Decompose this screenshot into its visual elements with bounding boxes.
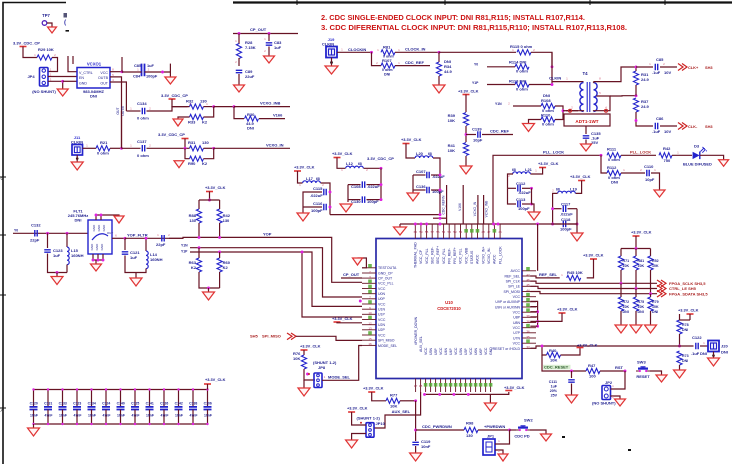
svg-text:AUX_SEL: AUX_SEL bbox=[392, 409, 411, 414]
svg-text:R75: R75 bbox=[638, 300, 645, 304]
resistor R33 bbox=[190, 114, 204, 119]
svg-text:SH3: SH3 bbox=[705, 65, 713, 70]
svg-text:+3.3V_CLK: +3.3V_CLK bbox=[631, 230, 652, 235]
svg-text:24.9: 24.9 bbox=[641, 104, 650, 109]
svg-text:0 ohm: 0 ohm bbox=[137, 153, 149, 158]
svg-text:R78: R78 bbox=[682, 323, 689, 327]
ground R110 bbox=[523, 124, 535, 132]
wire CDC_REF bbox=[395, 65, 430, 67]
svg-text:SPI_CLK: SPI_CLK bbox=[506, 280, 521, 284]
svg-text:CDC_REF: CDC_REF bbox=[490, 129, 509, 134]
svg-text:DNI: DNI bbox=[384, 73, 390, 77]
svg-text:VCC: VCC bbox=[378, 302, 386, 306]
svg-text:SH3: SH3 bbox=[705, 124, 713, 129]
svg-text:OUT: OUT bbox=[116, 107, 120, 114]
wire FLT1 out bbox=[112, 237, 125, 239]
wire bbox=[576, 209, 578, 233]
svg-text:3. CDC DIFERENTIAL CLOCK INPU: 3. CDC DIFERENTIAL CLOCK INPUT: DNI R81,… bbox=[321, 25, 627, 32]
svg-text:U3N: U3N bbox=[459, 348, 463, 355]
svg-text:100pF: 100pF bbox=[146, 74, 158, 79]
wire bbox=[48, 81, 63, 89]
svg-text:130: 130 bbox=[202, 140, 209, 145]
svg-text:REF_SEL: REF_SEL bbox=[539, 272, 558, 277]
wire bbox=[495, 430, 510, 444]
svg-text:U1N: U1N bbox=[378, 308, 385, 312]
svg-text:R90: R90 bbox=[188, 161, 196, 166]
wire bbox=[611, 371, 626, 389]
svg-text:47: 47 bbox=[487, 230, 491, 234]
svg-text:10K: 10K bbox=[623, 305, 630, 309]
svg-text:VCXO1: VCXO1 bbox=[87, 62, 102, 67]
ground J19 bbox=[325, 66, 338, 74]
svg-text:MODE_SEL: MODE_SEL bbox=[378, 344, 397, 348]
svg-text:C110: C110 bbox=[644, 164, 654, 169]
ground R72 bbox=[615, 325, 627, 333]
svg-text:U6N: U6N bbox=[474, 348, 478, 355]
svg-text:K2: K2 bbox=[191, 265, 197, 270]
capacitor C122b 22pF bbox=[162, 235, 164, 242]
svg-text:Y1P: Y1P bbox=[181, 250, 188, 254]
ic bottom pins bbox=[415, 379, 417, 393]
svg-text:C142: C142 bbox=[175, 402, 183, 406]
ground R63 bbox=[203, 292, 215, 300]
svg-text:10V: 10V bbox=[664, 129, 671, 134]
svg-text:38: 38 bbox=[526, 319, 530, 323]
wire bus4 bbox=[302, 252, 362, 317]
svg-text:C132: C132 bbox=[31, 223, 41, 228]
svg-text:C115: C115 bbox=[313, 186, 323, 191]
ground C113 bbox=[528, 212, 540, 220]
resistor R31 bbox=[633, 67, 636, 71]
svg-text:DNI: DNI bbox=[721, 350, 728, 355]
svg-text:24.9: 24.9 bbox=[641, 77, 650, 82]
capacitor C126 bbox=[163, 390, 165, 407]
svg-text:V_CTRL: V_CTRL bbox=[79, 71, 93, 75]
wire bbox=[566, 110, 584, 113]
svg-text:R21: R21 bbox=[100, 140, 108, 145]
svg-text:C133: C133 bbox=[59, 402, 67, 406]
svg-text:+3.3V_CLK: +3.3V_CLK bbox=[577, 342, 598, 347]
svg-text:160NH: 160NH bbox=[71, 253, 84, 258]
wire avcc down bbox=[537, 224, 539, 271]
svg-text:0 ohm: 0 ohm bbox=[516, 86, 528, 91]
svg-text:VCC: VCC bbox=[513, 342, 521, 346]
svg-text:REF_SEL: REF_SEL bbox=[504, 274, 520, 278]
svg-text:Y0: Y0 bbox=[14, 228, 18, 232]
offpage FPGA_SDATA bbox=[657, 290, 666, 297]
ground C130 bbox=[340, 204, 352, 212]
capacitor C141 bbox=[149, 390, 151, 407]
svg-text:1uF: 1uF bbox=[551, 385, 558, 389]
wire bbox=[700, 155, 724, 159]
wire rail bbox=[621, 248, 651, 250]
svg-text:V166: V166 bbox=[458, 203, 462, 211]
svg-text:R30: R30 bbox=[247, 112, 255, 117]
resistor R81b bbox=[633, 256, 638, 270]
wire OUTB bbox=[110, 77, 122, 148]
wire VCXO_IN bbox=[214, 147, 290, 149]
svg-text:0 ohm: 0 ohm bbox=[382, 68, 393, 72]
svg-text:45: 45 bbox=[498, 230, 502, 234]
svg-text:10K: 10K bbox=[293, 356, 300, 361]
svg-text:J20: J20 bbox=[721, 344, 728, 349]
svg-text:R81: R81 bbox=[638, 259, 645, 263]
svg-text:VCC_CP: VCC_CP bbox=[419, 249, 423, 264]
svg-text:GND: GND bbox=[97, 224, 101, 232]
resistor R42b bbox=[217, 209, 222, 223]
wire up to C134 line bbox=[121, 111, 123, 148]
svg-text:VCC_PLL: VCC_PLL bbox=[425, 248, 429, 264]
capacitor C118 bbox=[563, 221, 565, 228]
wire CLKIN to T4 bbox=[552, 81, 584, 83]
svg-text:U0P: U0P bbox=[378, 297, 385, 301]
wire bbox=[412, 175, 414, 193]
svg-text:CLOCKIN: CLOCKIN bbox=[348, 47, 366, 52]
svg-text:+3.3V_CLK: +3.3V_CLK bbox=[332, 151, 353, 156]
svg-text:.022uF: .022uF bbox=[310, 193, 323, 198]
svg-text:10V: 10V bbox=[664, 70, 671, 75]
svg-text:GND_CP: GND_CP bbox=[378, 271, 393, 275]
svg-text:SPI_MOSI: SPI_MOSI bbox=[503, 290, 520, 294]
wire bbox=[110, 147, 122, 149]
svg-text:U4P: U4P bbox=[449, 348, 453, 355]
capacitor C120 bbox=[33, 390, 35, 407]
wire bbox=[303, 192, 322, 213]
svg-text:U6P: U6P bbox=[479, 348, 483, 355]
svg-text:R72: R72 bbox=[623, 300, 630, 304]
svg-text:Y0: Y0 bbox=[474, 63, 478, 67]
svg-text:R33: R33 bbox=[188, 120, 196, 125]
svg-text:+3.3V_CLK: +3.3V_CLK bbox=[300, 344, 321, 349]
wire VCXO_INB bbox=[214, 106, 234, 108]
svg-text:/RESET or /HOLD: /RESET or /HOLD bbox=[492, 347, 521, 351]
svg-text:1uF: 1uF bbox=[130, 255, 138, 260]
capacitor C121 bbox=[124, 238, 126, 250]
svg-text:VCC: VCC bbox=[378, 318, 386, 322]
svg-text:Y1P: Y1P bbox=[472, 81, 479, 85]
svg-text:C136: C136 bbox=[416, 184, 426, 189]
svg-text:130: 130 bbox=[189, 218, 196, 223]
svg-text:JP1: JP1 bbox=[487, 434, 495, 439]
resistor R79 bbox=[650, 294, 652, 297]
svg-text:10K: 10K bbox=[448, 118, 455, 123]
svg-text:20%: 20% bbox=[550, 389, 558, 393]
svg-text:13: 13 bbox=[368, 327, 372, 331]
svg-text:+3.3V_CLK: +3.3V_CLK bbox=[205, 377, 226, 382]
wire bbox=[233, 33, 298, 35]
svg-text:10K: 10K bbox=[638, 264, 645, 268]
svg-text:ADT1-1WT: ADT1-1WT bbox=[575, 119, 598, 124]
svg-text:C84: C84 bbox=[133, 74, 141, 79]
offpage CLK- bbox=[678, 123, 687, 130]
svg-text:10nF: 10nF bbox=[204, 414, 212, 418]
svg-text:160NH: 160NH bbox=[150, 257, 163, 262]
svg-text:GND: GND bbox=[92, 224, 96, 232]
ground TP7 bbox=[48, 27, 57, 33]
svg-text:44.9: 44.9 bbox=[444, 69, 453, 74]
stray dot1 bbox=[562, 436, 565, 438]
svg-text:+PWRDWN: +PWRDWN bbox=[484, 424, 505, 429]
wire Y0 bbox=[487, 66, 515, 68]
svg-text:VCXO_IN+: VCXO_IN+ bbox=[481, 247, 485, 264]
capacitor C89 bbox=[236, 70, 243, 72]
svg-text:CP_OUT: CP_OUT bbox=[343, 272, 360, 277]
capacitor C123 bbox=[76, 390, 78, 407]
svg-text:+3.3V_CLK: +3.3V_CLK bbox=[583, 253, 604, 258]
wire to R115 bbox=[439, 51, 516, 53]
wire RST bbox=[600, 370, 625, 372]
wire reset bbox=[542, 346, 547, 355]
svg-text:DNI: DNI bbox=[247, 126, 254, 131]
wire bbox=[672, 154, 692, 156]
svg-text:+3.3V_CLK: +3.3V_CLK bbox=[570, 174, 591, 179]
wire bbox=[555, 106, 563, 120]
svg-text:R113 DNI: R113 DNI bbox=[509, 78, 526, 83]
svg-text:VCC: VCC bbox=[484, 347, 488, 355]
svg-text:VCC: VCC bbox=[454, 347, 458, 355]
svg-text:R73: R73 bbox=[682, 354, 689, 358]
svg-text:10nF: 10nF bbox=[117, 414, 125, 418]
svg-text:0 ohm: 0 ohm bbox=[516, 69, 528, 74]
svg-text:750: 750 bbox=[664, 158, 671, 163]
resistor R73 bbox=[677, 351, 682, 365]
capacitor C106 bbox=[207, 390, 209, 407]
svg-text:47nF: 47nF bbox=[74, 414, 82, 418]
svg-text:+3.3V_CLK: +3.3V_CLK bbox=[557, 307, 578, 312]
ground L14 bbox=[130, 278, 142, 286]
svg-text:+3.3V_CLK: +3.3V_CLK bbox=[347, 406, 368, 411]
svg-text:BLUE DIFUSED: BLUE DIFUSED bbox=[683, 162, 712, 167]
svg-text:PLL_LOCK: PLL_LOCK bbox=[543, 149, 564, 154]
svg-text:VCC: VCC bbox=[513, 311, 521, 315]
svg-text:U4N: U4N bbox=[444, 348, 448, 355]
svg-text:C126: C126 bbox=[160, 402, 168, 406]
offpage CTRL_LE bbox=[657, 285, 666, 292]
wire spi_miso bbox=[296, 336, 362, 340]
svg-text:DNI: DNI bbox=[682, 359, 688, 363]
svg-text:CP_OUT: CP_OUT bbox=[378, 277, 393, 281]
svg-text:33: 33 bbox=[526, 345, 530, 349]
svg-text:10K: 10K bbox=[448, 148, 455, 153]
svg-text:39: 39 bbox=[526, 314, 530, 318]
svg-text:C111: C111 bbox=[549, 380, 557, 384]
svg-text:V166: V166 bbox=[273, 113, 283, 118]
wire cdc_refin bbox=[446, 185, 448, 224]
ground ic bottom bbox=[484, 403, 496, 411]
svg-text:L12: L12 bbox=[346, 161, 354, 166]
svg-text:25V: 25V bbox=[591, 140, 598, 145]
svg-text:VCC: VCC bbox=[469, 347, 473, 355]
ground C84 bbox=[165, 77, 176, 84]
stray glyphs bbox=[64, 13, 68, 18]
ground R90 bbox=[174, 161, 184, 168]
svg-text:47nF: 47nF bbox=[103, 414, 111, 418]
svg-text:22pF: 22pF bbox=[156, 242, 166, 247]
svg-text:U0N: U0N bbox=[378, 292, 385, 296]
resistor R52 bbox=[648, 256, 653, 270]
svg-text:SPI_MISO: SPI_MISO bbox=[262, 334, 281, 339]
ground C136 bbox=[407, 193, 419, 201]
svg-text:12: 12 bbox=[368, 321, 372, 325]
svg-text:MODE_SEL: MODE_SEL bbox=[328, 374, 351, 379]
svg-text:C122: C122 bbox=[692, 335, 702, 340]
svg-text:DNI: DNI bbox=[652, 310, 658, 314]
wire V166 bbox=[259, 118, 285, 120]
inductor L15 bbox=[66, 233, 68, 247]
ground JP2 bbox=[615, 399, 626, 406]
wire bbox=[48, 58, 58, 72]
svg-text:U10: U10 bbox=[445, 300, 453, 305]
svg-text:10K: 10K bbox=[550, 358, 557, 363]
svg-text:10nF: 10nF bbox=[175, 414, 183, 418]
svg-text:Y1N: Y1N bbox=[181, 244, 188, 248]
wire node to rail bbox=[330, 214, 440, 216]
wire bbox=[209, 192, 211, 201]
svg-text:A: A bbox=[1, 408, 4, 413]
wire bbox=[651, 173, 660, 190]
svg-text:22uF: 22uF bbox=[245, 74, 255, 79]
svg-text:PLL_LOCK: PLL_LOCK bbox=[630, 149, 651, 154]
svg-text:VCC_PLL: VCC_PLL bbox=[442, 248, 446, 264]
svg-text:DNI: DNI bbox=[623, 310, 629, 314]
wire bbox=[532, 188, 535, 212]
svg-text:R112: R112 bbox=[607, 165, 617, 170]
capacitor C116 bbox=[324, 204, 326, 211]
ground D3 bbox=[719, 160, 729, 167]
ground cap bank bbox=[33, 424, 35, 428]
wire bbox=[561, 348, 581, 356]
svg-text:U3P: U3P bbox=[464, 348, 468, 355]
svg-text:GND: GND bbox=[95, 243, 99, 251]
svg-text:U2P: U2P bbox=[378, 328, 385, 332]
wire bbox=[529, 52, 552, 84]
svg-text:YOP: YOP bbox=[263, 231, 272, 236]
cap bank bbox=[34, 389, 208, 391]
svg-text:55: 55 bbox=[442, 230, 446, 234]
svg-text:CDC_PWRDWN: CDC_PWRDWN bbox=[422, 424, 452, 429]
ground R75 bbox=[630, 325, 642, 333]
ground L15 bbox=[51, 277, 63, 285]
svg-text:U1P: U1P bbox=[378, 313, 385, 317]
svg-text:RESET: RESET bbox=[636, 374, 650, 379]
svg-text:VCC: VCC bbox=[439, 347, 443, 355]
ground C89 bbox=[234, 85, 245, 92]
svg-text:+3.3V_CLK: +3.3V_CLK bbox=[363, 386, 384, 391]
svg-text:GND: GND bbox=[79, 82, 87, 86]
svg-text:R42: R42 bbox=[663, 146, 671, 151]
svg-text:47nF: 47nF bbox=[190, 414, 198, 418]
svg-text:R108: R108 bbox=[541, 98, 551, 103]
wire bbox=[48, 76, 77, 78]
svg-text:R107: R107 bbox=[382, 58, 392, 63]
svg-text:C137: C137 bbox=[137, 139, 147, 144]
wire bbox=[337, 51, 372, 53]
svg-text:10nF: 10nF bbox=[146, 414, 154, 418]
svg-text:DNI: DNI bbox=[638, 310, 644, 314]
svg-text:48: 48 bbox=[481, 230, 485, 234]
capacitor C131 bbox=[47, 390, 49, 407]
capacitor C112 bbox=[518, 185, 520, 192]
svg-text:46: 46 bbox=[526, 278, 530, 282]
svg-text:0 ohm: 0 ohm bbox=[608, 157, 620, 162]
svg-text:GND: GND bbox=[100, 243, 104, 251]
svg-text:C118: C118 bbox=[561, 217, 571, 222]
svg-text:U9N or AUXINN: U9N or AUXINN bbox=[495, 305, 521, 309]
ground JP4 bbox=[57, 89, 68, 96]
svg-text:R31: R31 bbox=[188, 140, 196, 145]
wire bbox=[465, 95, 467, 113]
capacitor C142 bbox=[178, 390, 180, 407]
svg-text:100pF: 100pF bbox=[518, 206, 530, 211]
svg-text:SEC_REF+: SEC_REF+ bbox=[436, 246, 440, 264]
svg-text:GND: GND bbox=[102, 224, 106, 232]
svg-text:FPGA_SDATA SH3,5: FPGA_SDATA SH3,5 bbox=[669, 291, 708, 296]
svg-text:DNI: DNI bbox=[682, 328, 688, 332]
svg-text:3.3V_CDC_CP: 3.3V_CDC_CP bbox=[367, 156, 394, 161]
capacitor C115 bbox=[324, 189, 326, 196]
svg-text:VCC: VCC bbox=[513, 295, 521, 299]
svg-text:C138: C138 bbox=[189, 402, 197, 406]
svg-text:CLKIN: CLKIN bbox=[549, 76, 561, 81]
svg-text:C123: C123 bbox=[73, 402, 81, 406]
svg-text:C124: C124 bbox=[102, 402, 110, 406]
svg-text:CDC_REFIN: CDC_REFIN bbox=[442, 195, 446, 214]
svg-text:VCXO_INB: VCXO_INB bbox=[260, 101, 281, 106]
svg-text:T4: T4 bbox=[582, 71, 588, 76]
svg-text:R29 10K: R29 10K bbox=[38, 47, 54, 52]
svg-text:10nF: 10nF bbox=[30, 414, 38, 418]
ground SW2 bbox=[541, 434, 552, 441]
wire FLT1 bottom pins bbox=[92, 254, 94, 260]
svg-text:PLL_LOCK: PLL_LOCK bbox=[498, 246, 502, 264]
wire bbox=[529, 120, 542, 124]
svg-text:10: 10 bbox=[368, 311, 372, 315]
svg-text:VCXO_IN: VCXO_IN bbox=[266, 142, 284, 147]
capacitor C119 bbox=[412, 442, 419, 444]
svg-text:U7P: U7P bbox=[513, 331, 520, 335]
wire fpga_sdata bbox=[530, 292, 657, 294]
svg-text:R40: R40 bbox=[549, 348, 557, 353]
ground C118 bbox=[571, 233, 583, 241]
svg-text:C112: C112 bbox=[516, 181, 526, 186]
wire YOP bbox=[169, 237, 362, 282]
svg-text:0 ohm: 0 ohm bbox=[97, 151, 109, 156]
svg-text:56: 56 bbox=[436, 230, 440, 234]
svg-text:CLK+: CLK+ bbox=[688, 65, 699, 70]
svg-text:CDC_RESET: CDC_RESET bbox=[544, 365, 569, 370]
resistor R112 bbox=[601, 155, 607, 173]
svg-text:K2: K2 bbox=[202, 120, 208, 125]
svg-text:3.3V_CDC_CP: 3.3V_CDC_CP bbox=[158, 132, 185, 137]
svg-text:RST: RST bbox=[615, 365, 624, 370]
wire vcxo_in bbox=[477, 195, 479, 224]
svg-text:AUX_SEL: AUX_SEL bbox=[419, 336, 423, 352]
svg-text:SEC_REF-: SEC_REF- bbox=[430, 246, 434, 264]
svg-text:CDC PD: CDC PD bbox=[514, 434, 529, 439]
svg-text:R111: R111 bbox=[607, 147, 617, 152]
svg-text:R114 DNI: R114 DNI bbox=[509, 60, 526, 65]
wire bbox=[621, 172, 645, 174]
capacitor C140 bbox=[120, 390, 122, 407]
svg-text:TESTOUTA: TESTOUTA bbox=[378, 266, 397, 270]
capacitor C135 bbox=[583, 136, 590, 138]
svg-text:18: 18 bbox=[419, 384, 423, 388]
svg-text:10K: 10K bbox=[638, 305, 645, 309]
svg-text:C120: C120 bbox=[30, 402, 38, 406]
svg-text:VCC: VCC bbox=[378, 333, 386, 337]
wire top rail bbox=[400, 223, 577, 225]
svg-text:VCC_PLL: VCC_PLL bbox=[378, 282, 394, 286]
